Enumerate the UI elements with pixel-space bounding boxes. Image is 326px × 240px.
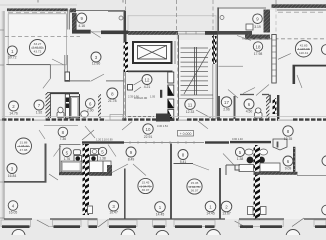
partition x170 bottom [170,144,172,219]
circle 6 WC [85,99,95,113]
balcony 9 left circle [77,13,87,28]
axis tick top-right [275,0,277,4]
core top wall: left segment [72,30,91,34]
svg-text:13.67: 13.67 [222,212,231,216]
room3 bottom wall [4,181,47,183]
room 17 right wall [234,96,236,119]
right bath toilet [255,108,263,118]
apartment stamp circle right-top [295,41,311,57]
partial circle right edge top [322,45,326,55]
elevator car inner with X [138,46,167,60]
svg-text:4.16: 4.16 [78,24,85,28]
bottom window band 7 [239,220,283,228]
core top wall: door lintel [91,31,101,33]
fixture rects flanking S4 bottom [248,207,254,215]
right core hatched block [245,35,270,40]
balcony 9 right left wall [217,7,219,31]
balcony door swing 2 [98,219,108,227]
lobby south dark block [156,114,170,122]
corridor swing right [198,121,208,129]
right top apartment: duct column [272,35,276,84]
thin line to right edge [297,175,326,177]
svg-text:39.72: 39.72 [8,55,17,59]
room 3 circle [91,52,101,66]
bath box bottom-mid [90,161,112,172]
circle 3 bottom-left [7,164,17,179]
bottom window band 2 [53,220,82,228]
door swing bottom-mid-right [193,164,209,170]
dark sink disc box [90,156,98,162]
leader circle 12 [134,80,143,85]
top-left wall corner [70,8,76,12]
door swing room2 [43,79,51,89]
circle 2 room [9,101,19,116]
svg-text:8.49: 8.49 [128,158,135,162]
svg-text:14.45: 14.45 [206,212,215,216]
small circle right balcony wall [220,16,224,20]
room3 door swing [39,130,45,139]
left edge tick marks [0,30,4,218]
top-right vertical hatched wall [264,10,271,33]
right apt V swing b [256,85,269,96]
circle 1 bottom-mid-left [155,202,166,217]
lobby duct box triangle 2 [168,99,174,108]
bl bathtub [61,161,81,172]
hall door swing from S3 [85,126,95,138]
svg-text:7.36: 7.36 [60,137,67,141]
bl bath top line [60,144,81,146]
svg-text:1.05: 1.05 [150,95,156,99]
right bath circle 6 [244,99,254,114]
bl sink box with disc [74,156,82,162]
svg-text:11: 11 [188,102,193,107]
circle 1 bottom-mid-right [205,201,216,215]
balcony right fixture box [246,24,253,30]
WC2 right wall hatched [98,94,101,118]
svg-text:12.86: 12.86 [92,62,101,66]
svg-text:2.00: 2.00 [87,108,94,112]
window dashes top-right [278,11,326,13]
vertical hatched x107 [107,165,112,173]
core top wall right of stairs [217,31,252,35]
bathtub [71,96,80,117]
lobby small duct box [128,85,133,91]
svg-text:1.20 2.10 0.90: 1.20 2.10 0.90 [96,138,113,142]
room1 right wall double upper [67,10,69,30]
partition x219 bottom [219,168,221,219]
room 1 circle [7,46,17,59]
right apt inner wall horizontal [293,65,326,67]
svg-text:16.05: 16.05 [9,211,18,215]
circle 2 bottom-mid-right [221,201,232,215]
bottom outer wall line segments [4,218,326,220]
right apt inner wall vertical [293,65,296,84]
stair treads [181,48,214,95]
right apt entry door swing [237,36,251,41]
stair landing line [179,98,214,100]
svg-text:18: 18 [256,45,261,50]
circle 5 bottom-left [63,148,72,161]
pentagon duct [273,139,287,150]
washer bottom-mid [91,149,99,155]
right wall x277 [277,95,279,119]
axis tick top B [122,0,124,3]
circle 9 kitchen bottom-mid [126,147,136,162]
stair arrow diagonal [184,49,211,95]
lobby left wall sawtooth [124,42,129,72]
bottom window band 6 [174,220,215,228]
door swing V right [133,164,146,176]
svg-text:1.38: 1.38 [237,157,244,161]
balcony partial circle 1 [12,229,25,240]
right duct saw marks [273,98,277,114]
bottom window band 8 [314,220,326,228]
bl bath door swing [54,146,62,157]
svg-text:1.76: 1.76 [64,157,71,161]
lobby left wall lower thin double [122,72,124,119]
room18 lower boundary line [219,65,244,67]
bath box divider [102,161,104,172]
circle 8 hall bottom-mid-right [178,150,188,165]
svg-text:12: 12 [145,78,150,83]
top-left vertical hatched wall [72,13,77,34]
circle 11 stair hall [185,99,195,114]
bathroom mid duct column [65,94,69,118]
right bath wall hatched [266,95,269,119]
balcony 9 right top line [218,7,266,9]
slab outline above core [128,16,216,31]
leader to right stamp [278,54,291,60]
door swing top entry left [91,32,101,38]
hall door swing [91,74,105,81]
dashed axis segment in lobby [128,116,154,118]
room 17 left wall [218,96,220,119]
svg-text:36.07: 36.07 [191,189,199,193]
svg-text:3.19: 3.19 [254,25,261,29]
svg-text:10.47: 10.47 [109,211,118,215]
right apt V swing a [243,88,255,94]
circle 17 [221,97,231,112]
corridor leader [82,130,94,140]
stair right wall lower shade [212,64,214,119]
bl washer [74,150,81,155]
stair right wall line [213,34,215,64]
stamp circle bottom apt mid-left [138,178,153,193]
wall y163.5 small [174,163,194,165]
svg-text:47.98: 47.98 [20,148,28,152]
balcony door swing 1 [37,220,49,227]
partial circle right edge mid [322,156,326,166]
balcony partial circle 4 [207,230,221,240]
leader circle 8 hall [134,87,141,92]
dark basins [247,157,254,164]
core top wall: hatched over elevator [128,31,178,35]
svg-text:43.72: 43.72 [34,50,42,54]
bathroom left wall line [50,93,52,118]
dashed zone line right apartment [242,38,326,40]
bottom window band 3 [88,220,98,228]
bathroom left wall hatched [46,93,51,118]
circle 6 kitchen bottom-right [283,156,293,171]
axis tick top A [37,0,39,3]
lobby duct box triangle 1 [168,85,174,96]
bl bath left wall [59,145,61,172]
right apt wall x293 [293,147,295,172]
circle 7 [34,100,44,115]
door swing room1 to room3 [52,59,64,65]
top-right outer wall band [272,4,326,8]
balcony door swing 4 [292,218,304,227]
svg-text:36.07: 36.07 [142,188,150,192]
right apt door swing [297,75,302,88]
lobby left wall solid top [124,34,127,43]
svg-text:10: 10 [146,127,151,132]
svg-text:16.84: 16.84 [8,174,17,178]
sink ovals bottom-right [245,149,253,155]
core top wall: mid segment [101,31,128,35]
elevator shaft outer [133,42,172,63]
bottom window band 5 [153,220,167,228]
level box +0.000 [178,131,194,137]
svg-text:3.30 1.54: 3.30 1.54 [157,124,168,128]
axis dashed left of elevator [125,0,127,11]
right apt partition y94.5 [240,94,254,96]
small wall piece y81.5 [65,81,71,83]
wall above balcony9 left [124,11,127,34]
top-right inner face line [277,9,326,11]
bath box hatched bottom [89,172,112,175]
circle partial right edge bottom [322,205,326,215]
axis dashed above stairs [176,0,178,35]
partition corner vertical [49,65,51,79]
faint line above top-left wall [0,4,77,6]
balcony partial circle 2 [121,229,135,240]
sawtooth column S3 [83,144,90,215]
circle 5 bottom-mid [98,147,106,160]
circle 8 left small [58,127,68,141]
leader circle 11 [196,110,211,118]
lobby circle 12 [142,75,152,90]
right apt entry swing [228,90,238,99]
bottom-left: room3 right wall [45,144,47,183]
svg-text:2.96: 2.96 [223,108,230,112]
apartment stamp circle left-top [30,40,46,56]
sawtooth column S4 [254,145,261,220]
axis dashed top of stair right wall [212,0,214,31]
fixture rect left of S3 end [88,206,93,214]
door swing right apt entry [223,154,234,165]
toilet left apt [57,107,64,117]
balcony partial circle 3 [156,230,169,240]
thin line above mid wall [2,116,326,118]
svg-text:2.35 0.90: 2.35 0.90 [128,95,139,99]
bathroom right wall [79,94,81,118]
room1 right wall double [64,55,66,81]
svg-text:14.45: 14.45 [156,213,165,217]
lobby duct box plain [168,72,174,83]
thin line below mid wall x44-78 [44,125,78,127]
bottom window band 4 [108,220,137,228]
hatched wall bottom-right [254,172,298,175]
stair stringers [195,47,197,95]
corner duct walls near corridor [226,165,240,175]
top-left outer wall band [7,8,68,11]
lobby left wall dark block [160,90,162,98]
balcony door swing 3 [235,221,247,228]
axis dashed in stair left wall [177,35,179,119]
svg-text:9.09: 9.09 [285,167,292,171]
bathroom top wall [47,92,79,94]
svg-text:17: 17 [224,100,229,105]
svg-text:1.92: 1.92 [36,111,43,115]
axis dashed in lobby wall [123,72,125,119]
circle 5 bath bottom-right [235,147,244,161]
svg-text:1.38: 1.38 [99,156,106,160]
svg-text:110.41: 110.41 [299,51,309,55]
stair top window band [178,31,205,35]
partition x124 bottom [124,169,126,219]
stair top dark segment [205,31,217,35]
door swing V left [112,164,128,173]
partition room1 bottom [6,64,50,66]
balcony 9 left top line [76,10,126,12]
small circle left balcony wall [119,16,123,20]
corridor circle 10 [143,124,153,139]
wall x269 short [269,95,271,103]
hall wall piece x105-124 [106,80,124,82]
svg-text:4.21: 4.21 [144,85,151,89]
balcony partial circle 5 [286,230,300,240]
stair shaft right face line [216,34,218,119]
stamp circle bottom-left apt [16,138,32,154]
circle 8 hall [107,88,118,103]
svg-text:0.90 1.40: 0.90 1.40 [232,137,243,141]
stair enclosure left wall [178,35,180,119]
bl bath hatched wall [59,172,84,175]
room 18 circle [253,42,262,56]
circle 8 right corridor [283,126,293,141]
svg-text:12.33: 12.33 [186,110,195,114]
left outer wall thin [3,11,5,219]
line at y11.5 left of lobby wall [108,11,124,13]
dashed zone line left apartment [5,36,80,38]
sink oval hall [81,111,89,117]
entry threshold outline [110,115,123,121]
leader circle 3 [49,174,58,180]
balcony 9 right circle [253,14,263,29]
lobby duct box triangle 3 [168,110,174,121]
corridor bottom wall segments [82,141,271,144]
door swing bottom-mid [108,145,116,157]
stamp circle bottom apt mid-right [187,179,202,194]
circle 3 bottom-mid [109,201,119,215]
elevator lower lobby wall [128,71,173,73]
bottom window outline band 1 [1,220,31,228]
svg-text:17.98: 17.98 [254,52,263,56]
svg-text:4.50: 4.50 [246,110,253,114]
counters bottom-right [239,165,254,172]
hall top wall y81 [70,80,91,82]
mid wall light lintels [34,119,293,121]
room 1 outline [8,14,66,65]
wall stub x277 [277,142,279,148]
corridor swing left [122,122,132,130]
svg-text:22.91: 22.91 [144,135,153,139]
window dashes under top-left band [8,12,66,14]
circle 4 bottom-left [8,201,18,215]
mid wall y119 dashed segments [2,118,326,120]
duct rect left apt [65,72,70,81]
stair right wall sawtooth top [212,36,217,64]
svg-text:14.76: 14.76 [9,112,18,116]
svg-text:+ 0.000: + 0.000 [180,132,192,136]
svg-text:21.78: 21.78 [108,99,117,103]
